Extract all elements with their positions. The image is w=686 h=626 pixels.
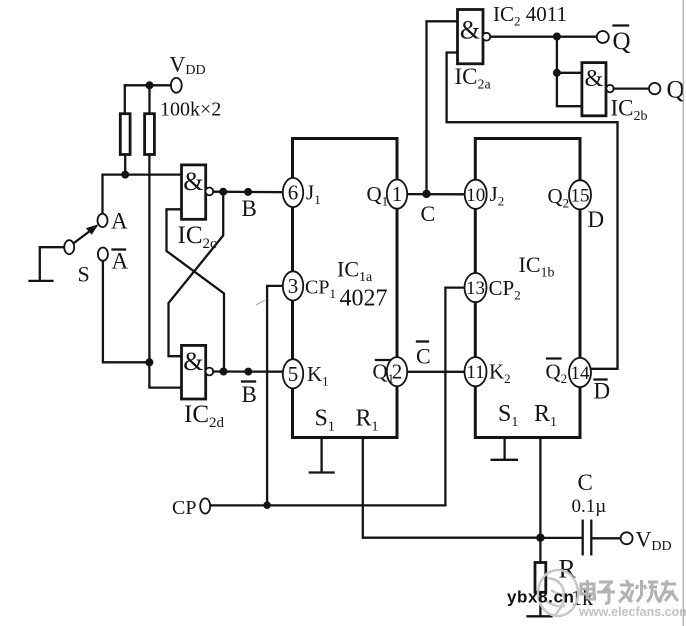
svg-text:14: 14 <box>571 363 591 384</box>
wire R1 of IC1b down <box>539 438 541 538</box>
wire S1 ground lead IC1b <box>503 438 505 459</box>
svg-text:6: 6 <box>288 181 299 205</box>
wire branch stub <box>557 72 582 74</box>
terminal CP <box>200 498 210 513</box>
wire resistor R to ground <box>539 592 541 615</box>
wire C node to IC2a input <box>427 21 458 194</box>
svg-text:1: 1 <box>392 182 403 206</box>
watermark hanzi 2 <box>597 582 615 603</box>
pin 1 <box>387 180 407 209</box>
pin 6 <box>283 178 303 207</box>
wire node to resistor R <box>539 538 541 563</box>
pin 5 <box>283 359 303 388</box>
svg-text:C: C <box>578 470 593 495</box>
wire IC2b output <box>614 87 649 89</box>
scan page border right edge <box>682 0 684 626</box>
flip-flop box IC1b <box>475 139 580 438</box>
watermark hanzi 5 <box>659 580 678 601</box>
node Abar net <box>145 358 153 366</box>
svg-text:4027: 4027 <box>340 286 388 312</box>
pin 14 <box>569 358 591 387</box>
node B <box>219 188 227 196</box>
node Bbar second <box>244 368 252 376</box>
svg-text:D: D <box>594 379 611 404</box>
nand gate IC2a <box>458 10 491 64</box>
label Bbar <box>242 380 255 382</box>
pin 2 <box>387 357 407 386</box>
terminal Abar <box>98 248 108 261</box>
svg-text:www.elecfans.com: www.elecfans.com <box>578 605 686 619</box>
wire node to capacitor <box>540 537 581 539</box>
wire A net to IC2c <box>103 175 183 215</box>
wire IC2a output <box>491 36 598 38</box>
svg-text:Q: Q <box>613 28 631 55</box>
label Qbar <box>614 24 629 26</box>
ground below IC1b <box>492 459 517 461</box>
wire pin3 CP1 stub <box>267 286 283 505</box>
wire switch to ground <box>40 247 64 279</box>
watermark hanzi 3 <box>619 580 634 602</box>
wire B <box>213 191 283 194</box>
svg-text:&: & <box>460 16 480 45</box>
nand gate IC2b <box>582 63 614 116</box>
switch arm arrow <box>75 227 96 243</box>
ground below IC1a <box>310 471 334 473</box>
node C <box>422 190 430 198</box>
node B second <box>244 188 252 196</box>
node Bbar <box>220 368 228 376</box>
wire R1 of IC1a down and right to RC node <box>363 438 541 538</box>
wire Q2bar feedback to IC2a lower input <box>447 53 618 369</box>
svg-text:15: 15 <box>571 185 590 206</box>
wire right resistor long lead to Abar net <box>148 155 150 363</box>
wire left resistor top lead <box>124 85 126 113</box>
pin 11 <box>465 357 487 386</box>
wire VDD rail <box>125 84 171 86</box>
wire cross couple B to IC2d upper input <box>169 192 224 357</box>
wire capacitor to VDD <box>593 537 621 539</box>
svg-text:100k×2: 100k×2 <box>160 99 221 121</box>
pin 10 <box>465 180 487 209</box>
watermark hanzi 1 <box>581 580 595 599</box>
capacitor C plates <box>582 521 584 555</box>
wire pin13 CP2 stub <box>445 288 464 506</box>
svg-text:D: D <box>588 207 605 232</box>
node on Qbar wire <box>553 33 561 41</box>
resistor R <box>535 563 546 593</box>
wire Bbar <box>213 370 283 373</box>
svg-text:CP: CP <box>172 497 196 519</box>
wire right resistor top lead <box>148 85 150 113</box>
node IC2b upper input branch <box>553 69 561 77</box>
terminal Qbar <box>597 31 609 43</box>
svg-text:11: 11 <box>466 362 484 383</box>
nand gate IC2d <box>182 345 214 399</box>
label Q1bar <box>376 359 390 361</box>
wire Abar net <box>103 261 149 362</box>
svg-text:C: C <box>421 201 436 226</box>
label Abar <box>113 248 126 250</box>
svg-text:A: A <box>112 249 129 274</box>
pin 3 <box>283 271 303 300</box>
label Cbar <box>417 340 428 342</box>
node CP to CP1 <box>263 501 271 509</box>
pin 13 <box>465 273 487 302</box>
ground at switch <box>30 280 53 282</box>
svg-text:A: A <box>111 209 128 234</box>
svg-text:&: & <box>183 347 203 376</box>
svg-text:S: S <box>78 262 90 287</box>
watermark hanzi 4 <box>636 580 661 602</box>
terminal A <box>98 214 108 227</box>
ground below R <box>528 615 552 617</box>
switch S common terminal <box>64 240 74 254</box>
node A net <box>121 171 129 179</box>
wire Abar to IC2d lower input <box>149 362 182 387</box>
wire left resistor bottom lead <box>124 155 126 175</box>
label Dbar <box>595 378 607 380</box>
label Q2bar <box>547 357 561 359</box>
wire CP net <box>210 504 445 506</box>
pin 15 <box>569 180 591 209</box>
svg-text:&: & <box>584 66 603 92</box>
terminal VDD top <box>171 78 182 93</box>
wire cross couple Bbar to IC2c lower input <box>167 209 225 371</box>
node VDD rail <box>146 81 154 89</box>
nand gate IC2c <box>182 165 214 219</box>
svg-text:C: C <box>416 344 431 369</box>
wire Q1 to J2 <box>407 193 465 195</box>
svg-text:B: B <box>242 196 257 221</box>
flip-flop box IC1a <box>293 139 398 438</box>
svg-text:IC2 4011: IC2 4011 <box>493 2 567 29</box>
svg-text:ybx8.cn: ybx8.cn <box>507 588 575 607</box>
resistor 100k right <box>145 114 155 155</box>
svg-text:Q: Q <box>667 77 685 104</box>
scan artifact diagonal <box>256 300 265 305</box>
terminal VDD bottom <box>621 532 633 544</box>
svg-text:5: 5 <box>288 362 299 386</box>
svg-text:13: 13 <box>466 278 485 299</box>
wire Q1bar to K2 <box>407 371 465 373</box>
svg-text:B: B <box>242 382 257 407</box>
terminal Q <box>649 83 660 94</box>
wire Qbar to IC2b inputs <box>557 37 582 107</box>
svg-text:3: 3 <box>288 274 299 298</box>
resistor 100k left <box>120 114 130 155</box>
watermark logo circle <box>538 570 578 616</box>
svg-text:10: 10 <box>466 185 485 206</box>
node RC junction <box>536 534 544 542</box>
svg-text:0.1µ: 0.1µ <box>572 496 607 517</box>
svg-text:&: & <box>183 167 203 196</box>
wire S1 ground lead IC1a <box>320 438 322 471</box>
